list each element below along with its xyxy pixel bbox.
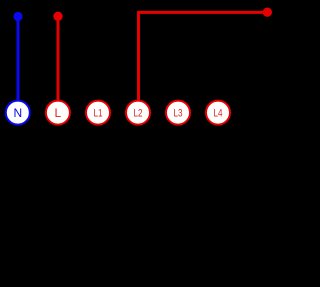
node: red wire end dot above L: [53, 12, 62, 21]
node: blue wire end dot: [13, 12, 22, 21]
terminal L: [46, 101, 70, 125]
wire: blue neutral lead from terminal N up: [17, 17, 20, 102]
wire: red lead from terminal L2 up and right: [139, 12, 268, 101]
svg-text:L: L: [55, 106, 62, 120]
svg-text:L1: L1: [94, 108, 103, 120]
terminal L1: [86, 101, 110, 125]
terminal L3: [166, 101, 190, 125]
terminal L4: [206, 101, 230, 125]
wire: red live lead from terminal L up: [57, 16, 60, 101]
terminal L2: [126, 101, 150, 125]
svg-text:L4: L4: [214, 108, 223, 120]
terminal N: [6, 101, 30, 125]
svg-text:L3: L3: [174, 108, 183, 120]
svg-text:L2: L2: [134, 108, 143, 120]
svg-text:N: N: [13, 106, 22, 120]
node: red wire end dot top right: [263, 8, 272, 17]
